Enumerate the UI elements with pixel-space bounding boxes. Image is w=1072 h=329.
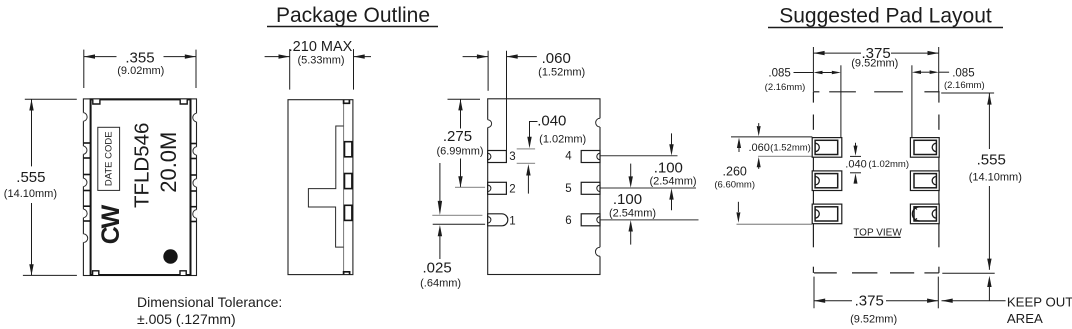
svg-text:(1.02mm): (1.02mm): [868, 159, 909, 170]
svg-text:.060: .060: [748, 142, 769, 154]
pin 1 indicator dot: [163, 249, 177, 263]
svg-text:(2.54mm): (2.54mm): [649, 176, 696, 188]
package outer body outline: [83, 99, 196, 276]
bottom view left edge corner arcs: [487, 120, 489, 128]
pin 6 pad: [581, 214, 600, 226]
side view lid seam line: [343, 103, 345, 271]
bottom view right edge corner arcs: [599, 118, 601, 127]
svg-text:(14.10mm): (14.10mm): [4, 188, 57, 200]
side view castellation pad 2: [345, 174, 352, 189]
keep out area pointer: [987, 276, 991, 287]
svg-text:(1.52mm): (1.52mm): [538, 67, 585, 79]
pin 4 center extension line: [601, 155, 678, 157]
pin 4 pad: [581, 151, 600, 163]
lid corner notch top-left: [93, 99, 100, 104]
svg-text:AREA: AREA: [1007, 311, 1043, 326]
side view outer outline: [288, 100, 353, 275]
dimension .555 (14.10mm) left of drawing 1: [23, 99, 77, 275]
dimension .040 (1.02mm) inside drawing 3: [530, 122, 538, 139]
dimension .100 (2.54mm) pins 5-6: [630, 164, 632, 177]
svg-text:5: 5: [565, 183, 571, 195]
svg-text:.100: .100: [613, 191, 642, 208]
lid corner notch bottom-right: [180, 271, 186, 275]
svg-text:.355: .355: [125, 49, 154, 66]
pin 2 pad: [488, 182, 507, 194]
left pad row 2: [812, 171, 842, 191]
svg-text:(9.52mm): (9.52mm): [850, 313, 897, 325]
svg-text:.555: .555: [977, 152, 1006, 169]
title: Suggested Pad Layout: [768, 5, 1003, 28]
left edge castellation ticks: [83, 143, 90, 221]
right edge castellation ticks: [191, 144, 197, 222]
svg-text:2: 2: [509, 184, 515, 196]
DATE CODE box: [98, 127, 120, 190]
svg-text:.100: .100: [654, 159, 683, 176]
svg-text:(14.10mm): (14.10mm): [969, 171, 1022, 183]
dimension .210 MAX (5.33mm): [265, 49, 371, 90]
svg-text:.085: .085: [768, 68, 790, 80]
dimension .375 (9.52mm) bottom: [813, 277, 815, 309]
dimension .375 (9.52mm) top: [813, 52, 861, 54]
dimension .275 (6.99mm) left of drawing 3: [448, 99, 481, 187]
side view castellation pad 3: [345, 205, 352, 220]
svg-text:(9.02mm): (9.02mm): [117, 65, 164, 77]
svg-text:DATE CODE: DATE CODE: [104, 131, 115, 186]
title: Package Outline: [267, 4, 438, 27]
svg-text:(9.52mm): (9.52mm): [851, 58, 898, 70]
keep out area dashed boundary: [813, 92, 939, 273]
left pad row 3: [812, 204, 842, 224]
svg-text:(2.16mm): (2.16mm): [944, 80, 985, 91]
dimension .355 (9.02mm) top of drawing 1: [84, 50, 196, 88]
pin 5 pad: [581, 182, 600, 194]
bottom view body outline: [488, 99, 600, 275]
right pad row 1: [910, 138, 939, 158]
left pad row 1: [812, 138, 842, 158]
lid corner notch top-right: [180, 99, 187, 104]
side view castellation pad 1: [345, 142, 352, 157]
svg-text:(5.33mm): (5.33mm): [297, 55, 344, 67]
svg-text:TFLD546: TFLD546: [130, 123, 153, 208]
right pad row 3 (pin 1, rounded): [910, 204, 939, 224]
svg-text:CW: CW: [97, 204, 125, 244]
svg-text:.375: .375: [855, 292, 884, 309]
pad row 1 top edge extension (.060): [731, 136, 812, 138]
side view ceramic step profile: [308, 126, 343, 247]
svg-text:(.64mm): (.64mm): [420, 278, 461, 290]
svg-text:.040: .040: [537, 113, 566, 130]
dimension .060 (1.52mm) arrows: [758, 123, 760, 126]
svg-text:4: 4: [565, 151, 572, 163]
left edge castellation arcs: [83, 113, 88, 243]
right edge castellation arcs: [193, 113, 198, 218]
svg-text:.260: .260: [723, 165, 747, 179]
svg-text:3: 3: [509, 151, 515, 163]
right pad row 2: [910, 171, 939, 191]
svg-text:(6.99mm): (6.99mm): [436, 145, 483, 157]
dimension .025 (.64mm) lower left of drawing 3: [439, 163, 441, 204]
top extension lines for .375: [812, 47, 814, 92]
pad row 1 bottom edge extension (gray): [758, 155, 812, 157]
pin 3 pad: [488, 151, 507, 163]
svg-text:.040: .040: [845, 159, 866, 171]
dimension .100 (2.54mm) pins 4-5: [671, 133, 673, 145]
svg-text:20.0M: 20.0M: [156, 132, 181, 193]
svg-text:1: 1: [509, 216, 515, 228]
svg-text:(1.02mm): (1.02mm): [539, 134, 586, 146]
svg-text:(2.54mm): (2.54mm): [609, 207, 656, 219]
svg-text:.085: .085: [952, 67, 974, 79]
pin 1 pad (rounded end): [488, 214, 508, 226]
svg-text:(6.60mm): (6.60mm): [714, 179, 755, 190]
dimension .060 (1.52mm) top of drawing 3: [463, 51, 537, 151]
pin 5 center extension line: [601, 187, 697, 189]
svg-text:.210 MAX: .210 MAX: [289, 39, 353, 55]
svg-text:TOP VIEW: TOP VIEW: [853, 227, 902, 238]
package lid (thick rectangle): [91, 99, 191, 275]
svg-text:(2.16mm): (2.16mm): [765, 82, 806, 93]
svg-text:.275: .275: [443, 128, 472, 145]
lid corner notch bottom-left: [93, 271, 99, 275]
side view bottom notch: [344, 272, 350, 275]
dimension .040 (1.02mm) middle: [850, 155, 861, 157]
svg-text:±.005 (.127mm): ±.005 (.127mm): [137, 311, 236, 327]
pin 6 center extension line: [601, 219, 699, 221]
inner extension lines for .085 dims: [840, 65, 842, 137]
dimension .555 (14.10mm) right: [941, 92, 994, 94]
svg-text:Package Outline: Package Outline: [276, 4, 430, 27]
dimension .085 left: [794, 72, 814, 74]
svg-text:KEEP OUT: KEEP OUT: [1007, 294, 1072, 309]
svg-text:.025: .025: [422, 259, 451, 276]
svg-text:6: 6: [565, 215, 571, 227]
svg-text:Suggested Pad Layout: Suggested Pad Layout: [779, 5, 992, 28]
dimension .085 right: [939, 71, 949, 73]
dimension .260 (6.60mm) left: [737, 138, 741, 149]
svg-text:(1.52mm): (1.52mm): [770, 142, 811, 153]
svg-text:.060: .060: [542, 50, 571, 67]
svg-text:.555: .555: [16, 169, 45, 186]
side view top notch: [344, 100, 350, 104]
svg-text:Dimensional Tolerance:: Dimensional Tolerance:: [137, 294, 282, 310]
